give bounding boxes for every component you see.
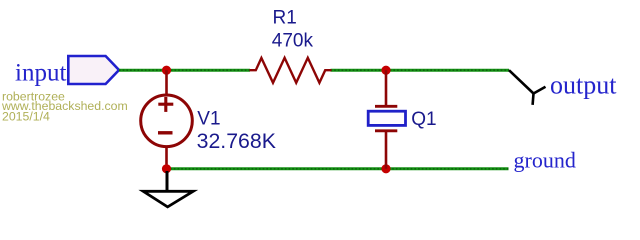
node A junction dot (input/V1) (162, 66, 171, 75)
ground symbol (143, 191, 193, 207)
svg-text:32.768K: 32.768K (197, 129, 276, 153)
crystal Q1 bottom plate (375, 129, 397, 132)
svg-text:ground: ground (514, 147, 576, 172)
wire bottom rail (ground rail) (167, 167, 509, 170)
wire Q1 bottom lead (385, 131, 388, 169)
svg-text:V1: V1 (197, 109, 220, 130)
crystal Q1 body (368, 111, 405, 125)
wire top rail left (input tip to resistor) (119, 69, 250, 72)
node C junction dot (V1/ground) (162, 164, 171, 173)
wire ground stub (166, 171, 169, 191)
wire V1 bottom lead (165, 147, 168, 169)
svg-text:2015/1/4: 2015/1/4 (2, 110, 50, 124)
output connector wire (509, 70, 546, 93)
input port flag (68, 56, 119, 84)
crystal Q1 top plate (375, 105, 397, 108)
node D junction dot (Q1 bottom) (381, 164, 390, 173)
svg-text:R1: R1 (273, 8, 297, 29)
svg-text:output: output (550, 71, 617, 100)
V1 plus sign (158, 103, 173, 106)
wire top rail right (resistor to output) (331, 69, 510, 72)
output connector stub (531, 94, 535, 105)
voltage source V1 (141, 95, 193, 147)
V1 minus sign (158, 131, 173, 134)
node B junction dot (R1/Q1/output) (381, 66, 390, 75)
svg-text:470k: 470k (272, 31, 314, 52)
wire V1 top lead (165, 70, 168, 95)
wire Q1 top lead (385, 70, 388, 106)
svg-text:Q1: Q1 (411, 109, 436, 130)
svg-text:input: input (15, 60, 66, 87)
resistor R1 (250, 58, 332, 83)
